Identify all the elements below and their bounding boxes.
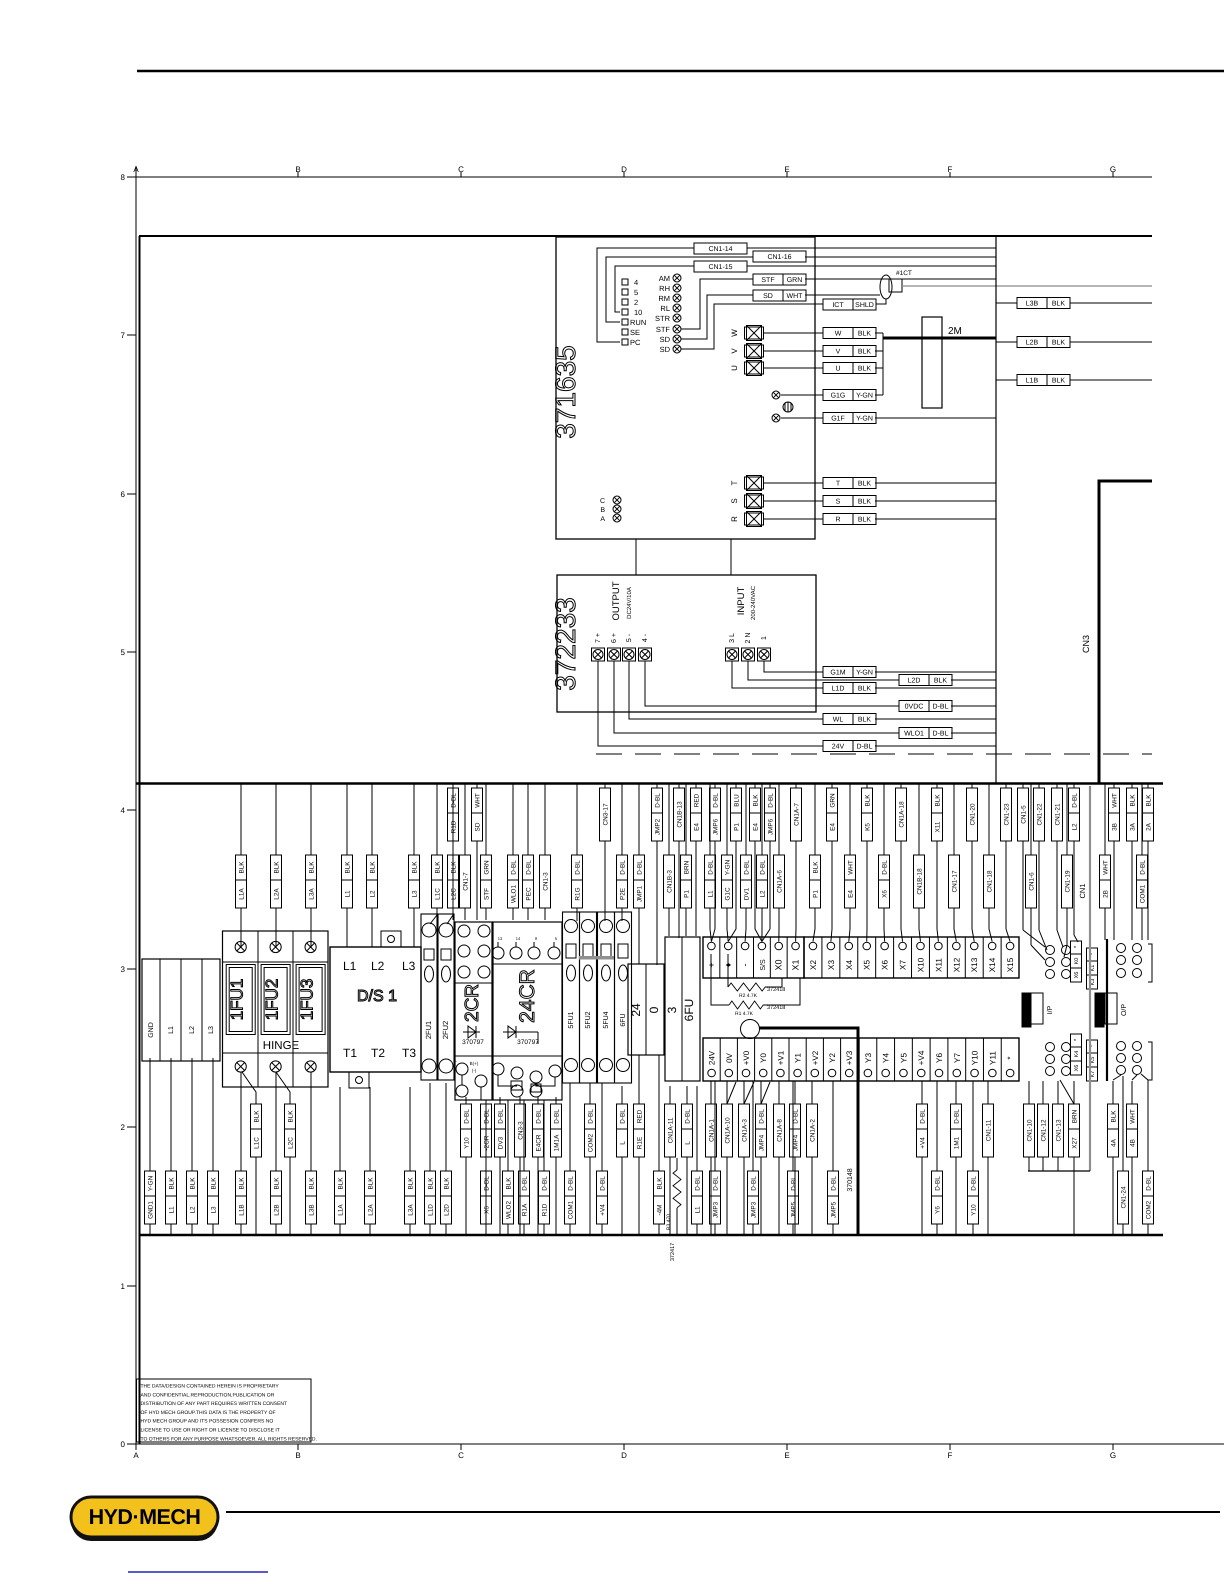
- relay 24CR diode: [503, 1031, 520, 1033]
- svg-text:1M1A: 1M1A: [554, 1134, 561, 1151]
- wire and label X27 BRN: [1073, 1081, 1075, 1104]
- wire U label to cable: [875, 367, 883, 369]
- svg-text:D-BL: D-BL: [526, 860, 533, 875]
- panel boundary vertical: [995, 236, 997, 783]
- svg-text:D: D: [621, 1451, 627, 1460]
- svg-text:L2C: L2C: [288, 1137, 295, 1149]
- svg-text:D-BL: D-BL: [637, 860, 644, 875]
- svg-text:CN3-3: CN3-3: [518, 1121, 525, 1140]
- svg-text:X6: X6: [484, 1206, 491, 1214]
- svg-text:D-BL: D-BL: [713, 793, 720, 808]
- wire and label CN1A-3: [743, 1081, 745, 1104]
- PLC output terminal *: [1000, 1038, 1002, 1081]
- svg-text:D-BL: D-BL: [588, 1109, 595, 1124]
- svg-text:BLK: BLK: [858, 331, 872, 338]
- svg-text:L2A: L2A: [368, 1204, 375, 1216]
- svg-text:P2E: P2E: [620, 888, 627, 900]
- wire hook CN1-21: [1057, 930, 1063, 947]
- wire and label L1 BLK: [170, 1058, 172, 1171]
- wire and label CN1-19: [1066, 784, 1068, 855]
- PLC output terminal +V4: [911, 1038, 913, 1081]
- trim pot O/P: [1095, 993, 1104, 1027]
- svg-text:Y-GN: Y-GN: [856, 670, 873, 677]
- svg-text:L3B: L3B: [1026, 301, 1039, 308]
- svg-text:BLK: BLK: [1146, 794, 1153, 807]
- svg-text:OF HYD MECH GROUP.THIS DATA IS: OF HYD MECH GROUP.THIS DATA IS THE PROPE…: [141, 1410, 276, 1416]
- PLC input terminal +: [708, 942, 716, 950]
- svg-text:F: F: [948, 1451, 953, 1460]
- svg-text:CN1-3: CN1-3: [543, 872, 550, 891]
- svg-text:L2C: L2C: [451, 888, 458, 900]
- svg-text:BLK: BLK: [444, 1177, 451, 1190]
- fuse 1FU1: [235, 941, 246, 952]
- svg-text:CN1A-10: CN1A-10: [725, 1117, 732, 1144]
- svg-text:CN1-19: CN1-19: [1065, 870, 1072, 892]
- svg-text:Y7: Y7: [953, 1053, 962, 1063]
- svg-text:CN1-20: CN1-20: [970, 803, 977, 825]
- footer rule: [226, 1511, 1220, 1513]
- svg-text:Y6: Y6: [935, 1206, 942, 1214]
- PLC input terminal X1: [786, 937, 788, 978]
- svg-text:10: 10: [634, 308, 642, 317]
- svg-text:CN1-21: CN1-21: [1055, 803, 1062, 825]
- PLC output terminal +V1: [771, 1038, 773, 1081]
- svg-text:BLK: BLK: [753, 794, 760, 807]
- svg-text:CN1-17: CN1-17: [952, 870, 959, 892]
- PSU block 372233 outline: [557, 575, 816, 712]
- ruler bottom line: [129, 1443, 1224, 1445]
- svg-text:G: G: [1110, 1451, 1116, 1460]
- svg-text:T: T: [836, 481, 841, 488]
- svg-text:X14: X14: [988, 957, 997, 972]
- svg-text:D-BL: D-BL: [522, 1176, 529, 1191]
- wire and label R1D D-BL: [543, 1100, 545, 1171]
- svg-text:E4: E4: [830, 823, 837, 831]
- wire and label JMP6 D-BL: [769, 784, 771, 788]
- svg-text:E4: E4: [694, 823, 701, 831]
- wire and label E4 RED: [695, 784, 697, 788]
- wire and label 1M1A D-BL: [555, 1097, 557, 1104]
- svg-text:D-BL: D-BL: [882, 860, 889, 875]
- svg-text:PEC: PEC: [526, 887, 533, 901]
- svg-text:L1: L1: [345, 890, 352, 898]
- svg-text:+V1: +V1: [776, 1050, 785, 1065]
- svg-text:#1CT: #1CT: [896, 270, 912, 277]
- wire and label P2E D-BL: [621, 784, 623, 855]
- svg-text:0: 0: [647, 1006, 661, 1013]
- wire CN1-15 to boundary: [747, 265, 996, 267]
- wire hook CN1-5: [1023, 930, 1045, 947]
- resistor R1 4.7K: [711, 954, 729, 1005]
- svg-text:370797: 370797: [462, 1039, 484, 1046]
- svg-text:BLK: BLK: [1052, 378, 1066, 385]
- svg-text:L2: L2: [760, 890, 767, 898]
- svg-text:BRN: BRN: [684, 860, 691, 874]
- PLC output terminal Y0: [754, 1038, 756, 1081]
- wire hook 4A: [1113, 1075, 1121, 1080]
- svg-text:L3: L3: [402, 959, 416, 973]
- svg-text:S: S: [730, 498, 739, 503]
- wire and label L1A BLK: [240, 784, 242, 855]
- svg-text:BLK: BLK: [858, 349, 872, 356]
- svg-text:L1: L1: [343, 959, 357, 973]
- svg-text:2FU2: 2FU2: [441, 1021, 450, 1039]
- svg-text:STF: STF: [656, 325, 671, 334]
- wire and label CN3-17: [604, 784, 606, 788]
- wire and label CN1A-11: [669, 1086, 671, 1104]
- wire and label G1C Y-GN: [726, 784, 728, 855]
- svg-text:5FU2: 5FU2: [585, 1011, 592, 1028]
- svg-text:WLO1: WLO1: [904, 731, 924, 738]
- svg-text:T2: T2: [371, 1046, 385, 1060]
- svg-text:STF: STF: [761, 277, 774, 284]
- svg-text:+V3: +V3: [845, 1050, 854, 1065]
- svg-text:X6: X6: [881, 960, 890, 970]
- wire and label COM1 D-BL: [1141, 784, 1143, 855]
- svg-text:D-BL: D-BL: [464, 1109, 471, 1124]
- svg-text:Y3: Y3: [864, 1053, 873, 1063]
- PLC input terminal X5: [857, 937, 859, 978]
- svg-text:CN1-12: CN1-12: [1041, 1119, 1048, 1141]
- svg-text:R: R: [730, 516, 739, 522]
- svg-text:CN1A-7: CN1A-7: [794, 803, 801, 826]
- wire and label CN1A-2: [811, 1081, 813, 1104]
- svg-text:S/S: S/S: [759, 959, 767, 971]
- connector label CN1-14: [694, 243, 747, 254]
- wire label L3B BLK: [1017, 298, 1070, 309]
- relay 2CR pins top: [458, 925, 470, 937]
- svg-text:SD: SD: [660, 345, 671, 354]
- svg-text:CN1B-18: CN1B-18: [917, 868, 924, 895]
- svg-text:R3 470: R3 470: [666, 1214, 672, 1230]
- wire label 24V D-BL: [823, 741, 876, 752]
- svg-text:BLK: BLK: [451, 861, 458, 874]
- wire and label L3 BLK: [413, 784, 415, 855]
- wire and label CN3-3: [519, 1097, 521, 1104]
- svg-text:C: C: [458, 1451, 464, 1460]
- svg-text:5FU1: 5FU1: [568, 1011, 575, 1028]
- svg-text:CN1A-2: CN1A-2: [810, 1119, 817, 1142]
- wire and label 4A BLK: [1112, 1081, 1114, 1104]
- PLC output row left outline: [703, 1038, 858, 1081]
- svg-text:L2D: L2D: [444, 1204, 451, 1216]
- wire and label E4CR D-BL: [537, 1097, 539, 1104]
- svg-text:D-BL: D-BL: [1072, 793, 1079, 808]
- PLC output terminal 0V: [719, 1038, 721, 1081]
- wire U to label: [764, 367, 823, 369]
- svg-text:1: 1: [761, 636, 768, 640]
- svg-text:BLK: BLK: [858, 517, 872, 524]
- bus wire K column: [1106, 939, 1108, 1081]
- svg-text:D-BL: D-BL: [768, 793, 775, 808]
- wire and label L2 D-BL: [1073, 784, 1075, 788]
- svg-text:BLK: BLK: [858, 717, 872, 724]
- PLC input terminal X6: [875, 937, 877, 978]
- svg-text:D-BL: D-BL: [620, 1109, 627, 1124]
- PLC output terminal Y4: [876, 1038, 878, 1081]
- svg-text:COM2: COM2: [588, 1133, 595, 1152]
- PE earth symbol: [783, 402, 793, 412]
- svg-text:BLK: BLK: [1052, 340, 1066, 347]
- svg-text:X11: X11: [934, 958, 943, 972]
- wire and label R1A D-BL: [523, 1100, 525, 1171]
- wire and label CN1-12: [1042, 1081, 1044, 1104]
- svg-text:CN1A-6: CN1A-6: [777, 870, 784, 893]
- trim pot I/P: [1022, 993, 1031, 1027]
- svg-text:BLK: BLK: [309, 1177, 316, 1190]
- wire G1F to panel: [875, 417, 996, 419]
- wire CN1-16 to terminal: [606, 257, 753, 322]
- wire and label JMP4 D-BL: [794, 1081, 796, 1104]
- svg-text:BLK: BLK: [309, 861, 316, 874]
- svg-text:CN1A-8: CN1A-8: [777, 1119, 784, 1142]
- svg-text:D-BL: D-BL: [655, 793, 662, 808]
- svg-text:L1C: L1C: [435, 888, 442, 900]
- wire and label L2 BLK: [191, 1058, 193, 1171]
- svg-text:D-BL: D-BL: [498, 1109, 505, 1124]
- wire jog CN1A-3: [744, 1082, 754, 1104]
- svg-text:4B: 4B: [1130, 1139, 1137, 1147]
- svg-text:7 +: 7 +: [595, 633, 602, 643]
- svg-text:6 +: 6 +: [611, 633, 618, 643]
- PLC input terminal X3: [821, 937, 823, 978]
- PLC input row left outline: [703, 937, 804, 978]
- svg-text:Y1: Y1: [794, 1053, 803, 1063]
- wire L2B from boundary: [996, 341, 1017, 343]
- svg-text:D-BL: D-BL: [920, 1109, 927, 1124]
- svg-text:JMP3: JMP3: [713, 1201, 720, 1218]
- svg-text:Y0: Y0: [759, 1053, 768, 1063]
- VFD control terminal 5: [622, 289, 628, 295]
- wire and label WLO1 D-BL: [512, 784, 514, 855]
- wire and label CN1-24: [1122, 1080, 1124, 1171]
- svg-text:CN1-6: CN1-6: [1029, 872, 1036, 891]
- wire label STF GRN: [753, 274, 806, 285]
- svg-text:Y10: Y10: [971, 1204, 978, 1216]
- svg-text:(-): (-): [472, 1068, 477, 1073]
- svg-text:X11: X11: [935, 821, 942, 832]
- wire label S BLK: [823, 496, 876, 507]
- wire label W BLK: [823, 328, 876, 339]
- PLC output terminal Y6: [929, 1038, 931, 1081]
- svg-text:5 -: 5 -: [626, 633, 633, 642]
- svg-text:X27: X27: [1072, 1137, 1079, 1149]
- fuse holder 6FU: [615, 912, 632, 1083]
- svg-text:3: 3: [665, 1006, 679, 1013]
- motor contactor 2M: [922, 317, 942, 408]
- wire PSU 7+ to 24V: [598, 661, 823, 746]
- svg-text:BLK: BLK: [274, 861, 281, 874]
- wire label V BLK: [823, 346, 876, 357]
- svg-text:371635: 371635: [550, 345, 581, 438]
- svg-text:DISTRIBUTION OF ANY PART REQUI: DISTRIBUTION OF ANY PART REQUIRES WRITTE…: [141, 1401, 288, 1407]
- relay 2CR pins bottom: [456, 1063, 468, 1075]
- svg-text:CN1-18: CN1-18: [987, 870, 994, 892]
- wire label L2D BLK: [899, 675, 952, 686]
- svg-text:INPUT: INPUT: [736, 587, 747, 616]
- svg-text:4A: 4A: [1111, 1138, 1118, 1147]
- wire and label CN1-20: [971, 784, 973, 788]
- svg-text:X6: X6: [1074, 1065, 1080, 1072]
- svg-text:+V2: +V2: [811, 1050, 820, 1065]
- svg-text:24CR: 24CR: [516, 969, 539, 1023]
- svg-text:CN3: CN3: [1081, 635, 1091, 653]
- svg-text:CN1A-18: CN1A-18: [899, 801, 906, 828]
- wire L2B to right: [1070, 341, 1152, 343]
- wire and label CN1-17: [953, 784, 955, 855]
- svg-text:D-BL: D-BL: [751, 1176, 758, 1191]
- svg-text:OUTPUT: OUTPUT: [611, 581, 622, 620]
- wire WLO1 to panel: [951, 732, 996, 734]
- terminal block 24-0: [628, 964, 664, 1055]
- svg-text:D-BL: D-BL: [791, 1176, 798, 1191]
- wire and label 2B WHT: [1104, 784, 1106, 855]
- ground terminal strip: [142, 959, 220, 1061]
- svg-text:GND1: GND1: [148, 1201, 155, 1219]
- svg-text:A: A: [600, 516, 605, 523]
- wire and label L1C BLK: [242, 1072, 256, 1104]
- svg-text:4: 4: [634, 278, 638, 287]
- wire and label DV3 D-BL: [499, 1097, 501, 1104]
- wire ICT SHLD hook: [876, 299, 886, 304]
- svg-text:D-BL: D-BL: [954, 1109, 961, 1124]
- junction circle 4M: [741, 1020, 760, 1039]
- wire and label COM2 D-BL: [1147, 1080, 1149, 1171]
- svg-text:X7: X7: [899, 960, 908, 970]
- PLC input terminal -: [736, 937, 738, 978]
- wire label L2B BLK: [1017, 337, 1070, 348]
- svg-text:AM: AM: [659, 274, 670, 283]
- svg-text:CN1A-1: CN1A-1: [709, 1119, 716, 1142]
- wire S to label: [764, 500, 823, 502]
- wire CN1-15 to terminal: [615, 266, 694, 312]
- wire and label Y6 D-BL: [936, 1081, 938, 1171]
- wire hook CN1-24: [1122, 1076, 1124, 1080]
- svg-text:BLK: BLK: [254, 1110, 261, 1123]
- svg-text:HYD MECH GROUP AND ITS POSSESI: HYD MECH GROUP AND ITS POSSESION CONFERS…: [141, 1419, 274, 1425]
- PLC expansion pins lower left: [1046, 1043, 1055, 1052]
- wire label WLO1 D-BL: [899, 728, 952, 739]
- svg-text:BLK: BLK: [345, 861, 352, 874]
- svg-text:JMP4: JMP4: [793, 1134, 800, 1151]
- svg-text:AND CONFIDENTIAL.REPRODUCTION,: AND CONFIDENTIAL.REPRODUCTION,PUBLICATIO…: [141, 1392, 275, 1398]
- wire and label R1D D-BL: [452, 784, 454, 788]
- PLC input terminal X7: [893, 937, 895, 978]
- svg-text:L1: L1: [708, 890, 715, 898]
- svg-text:P1: P1: [813, 890, 820, 898]
- wire PSU 3L to L1D: [732, 661, 823, 688]
- wire and label CN1-6: [1030, 784, 1032, 855]
- page header rule: [137, 70, 1224, 73]
- lower terminal bus: [139, 1234, 1163, 1237]
- PLC input terminal X4: [839, 937, 841, 978]
- svg-text:W: W: [730, 329, 739, 337]
- svg-text:B: B: [295, 1451, 300, 1460]
- wire and label R1E RED: [638, 1055, 640, 1104]
- svg-text:2 N: 2 N: [745, 633, 752, 644]
- svg-text:K4: K4: [1074, 1051, 1080, 1058]
- svg-text:GRN: GRN: [787, 277, 803, 284]
- svg-text:X10: X10: [916, 957, 925, 972]
- wire hook 4B: [1132, 1075, 1137, 1080]
- svg-text:L1A: L1A: [338, 1204, 345, 1216]
- wire and label JMP5 D-BL: [832, 1081, 834, 1171]
- wire VFD to PSU left: [635, 539, 637, 575]
- svg-text:CN1B-3: CN1B-3: [667, 870, 674, 893]
- wire and label L1D BLK: [429, 1083, 431, 1171]
- svg-text:D-BL: D-BL: [713, 1176, 720, 1191]
- wire L1B from boundary: [996, 379, 1017, 381]
- wire and label -2CR D-BL: [485, 1100, 487, 1104]
- svg-text:BLK: BLK: [368, 1177, 375, 1190]
- wire and label L1 D-BL: [696, 1086, 698, 1171]
- wire label SD WHT: [753, 290, 806, 301]
- wire 0VDC to panel: [951, 705, 996, 707]
- svg-text:372233: 372233: [550, 597, 581, 690]
- svg-text:SD: SD: [475, 822, 482, 831]
- ground terminal G1G: [772, 391, 780, 399]
- wire and label JMP5 D-BL: [792, 1081, 794, 1171]
- svg-text:BLK: BLK: [239, 861, 246, 874]
- svg-text:2A: 2A: [1146, 822, 1153, 831]
- svg-text:SD: SD: [660, 335, 671, 344]
- wire and label L3B BLK: [310, 1072, 312, 1171]
- relay 2CR outline: [455, 922, 492, 1100]
- PLC output terminal Y10: [965, 1038, 967, 1081]
- wire hook L1C to 2FU1: [430, 915, 437, 924]
- wire and label GND1 Y-GN: [149, 1058, 151, 1171]
- svg-text:-4M: -4M: [657, 1204, 664, 1215]
- svg-text:THE DATA/DESIGN CONTAINED HERE: THE DATA/DESIGN CONTAINED HEREIN IS PROP…: [141, 1384, 280, 1390]
- connector label CN1-15: [694, 261, 747, 272]
- wire and label CN1-23: [1005, 784, 1007, 788]
- wire and label X6 D-BL: [883, 784, 885, 855]
- svg-text:CN1: CN1: [1078, 883, 1087, 898]
- PLC input terminal ♦: [719, 937, 721, 978]
- svg-text:PC: PC: [630, 338, 641, 347]
- svg-text:JMP6: JMP6: [768, 818, 775, 835]
- svg-text:24: 24: [629, 1003, 643, 1017]
- svg-text:K5: K5: [865, 823, 872, 831]
- wire and label CN1A-1: [710, 1081, 712, 1104]
- wire and label 1M1 D-BL: [955, 1081, 957, 1104]
- wire and label L2C BLK: [276, 1072, 290, 1104]
- wire and label L2A BLK: [275, 784, 277, 855]
- svg-text:8: 8: [121, 173, 126, 182]
- svg-text:X1: X1: [791, 959, 801, 970]
- relay 24CR outline: [493, 922, 562, 1100]
- PLC output terminal +V2: [805, 1038, 807, 1081]
- svg-text:RUN: RUN: [630, 318, 646, 327]
- frame left border: [139, 236, 141, 1444]
- fuse holder 5FU2: [580, 912, 597, 1083]
- svg-text:4 -: 4 -: [642, 633, 649, 642]
- svg-text:+V4: +V4: [917, 1050, 926, 1065]
- svg-text:G1M: G1M: [830, 670, 845, 677]
- svg-text:WL: WL: [833, 717, 844, 724]
- wire hook L2C to 2FU2: [447, 915, 453, 924]
- wire T to panel: [875, 482, 996, 484]
- VFD control terminal 4: [622, 279, 628, 285]
- wire and label -4M BLK: [658, 1055, 660, 1171]
- svg-text:370797: 370797: [517, 1039, 539, 1046]
- PLC input terminal X14: [982, 937, 984, 978]
- PLC expansion pins lower right: [1117, 1042, 1126, 1051]
- svg-text:372418: 372418: [767, 1005, 785, 1011]
- svg-text:X6: X6: [1074, 972, 1080, 979]
- svg-text:X2: X2: [809, 960, 818, 970]
- resistor R3 470: [676, 1158, 678, 1170]
